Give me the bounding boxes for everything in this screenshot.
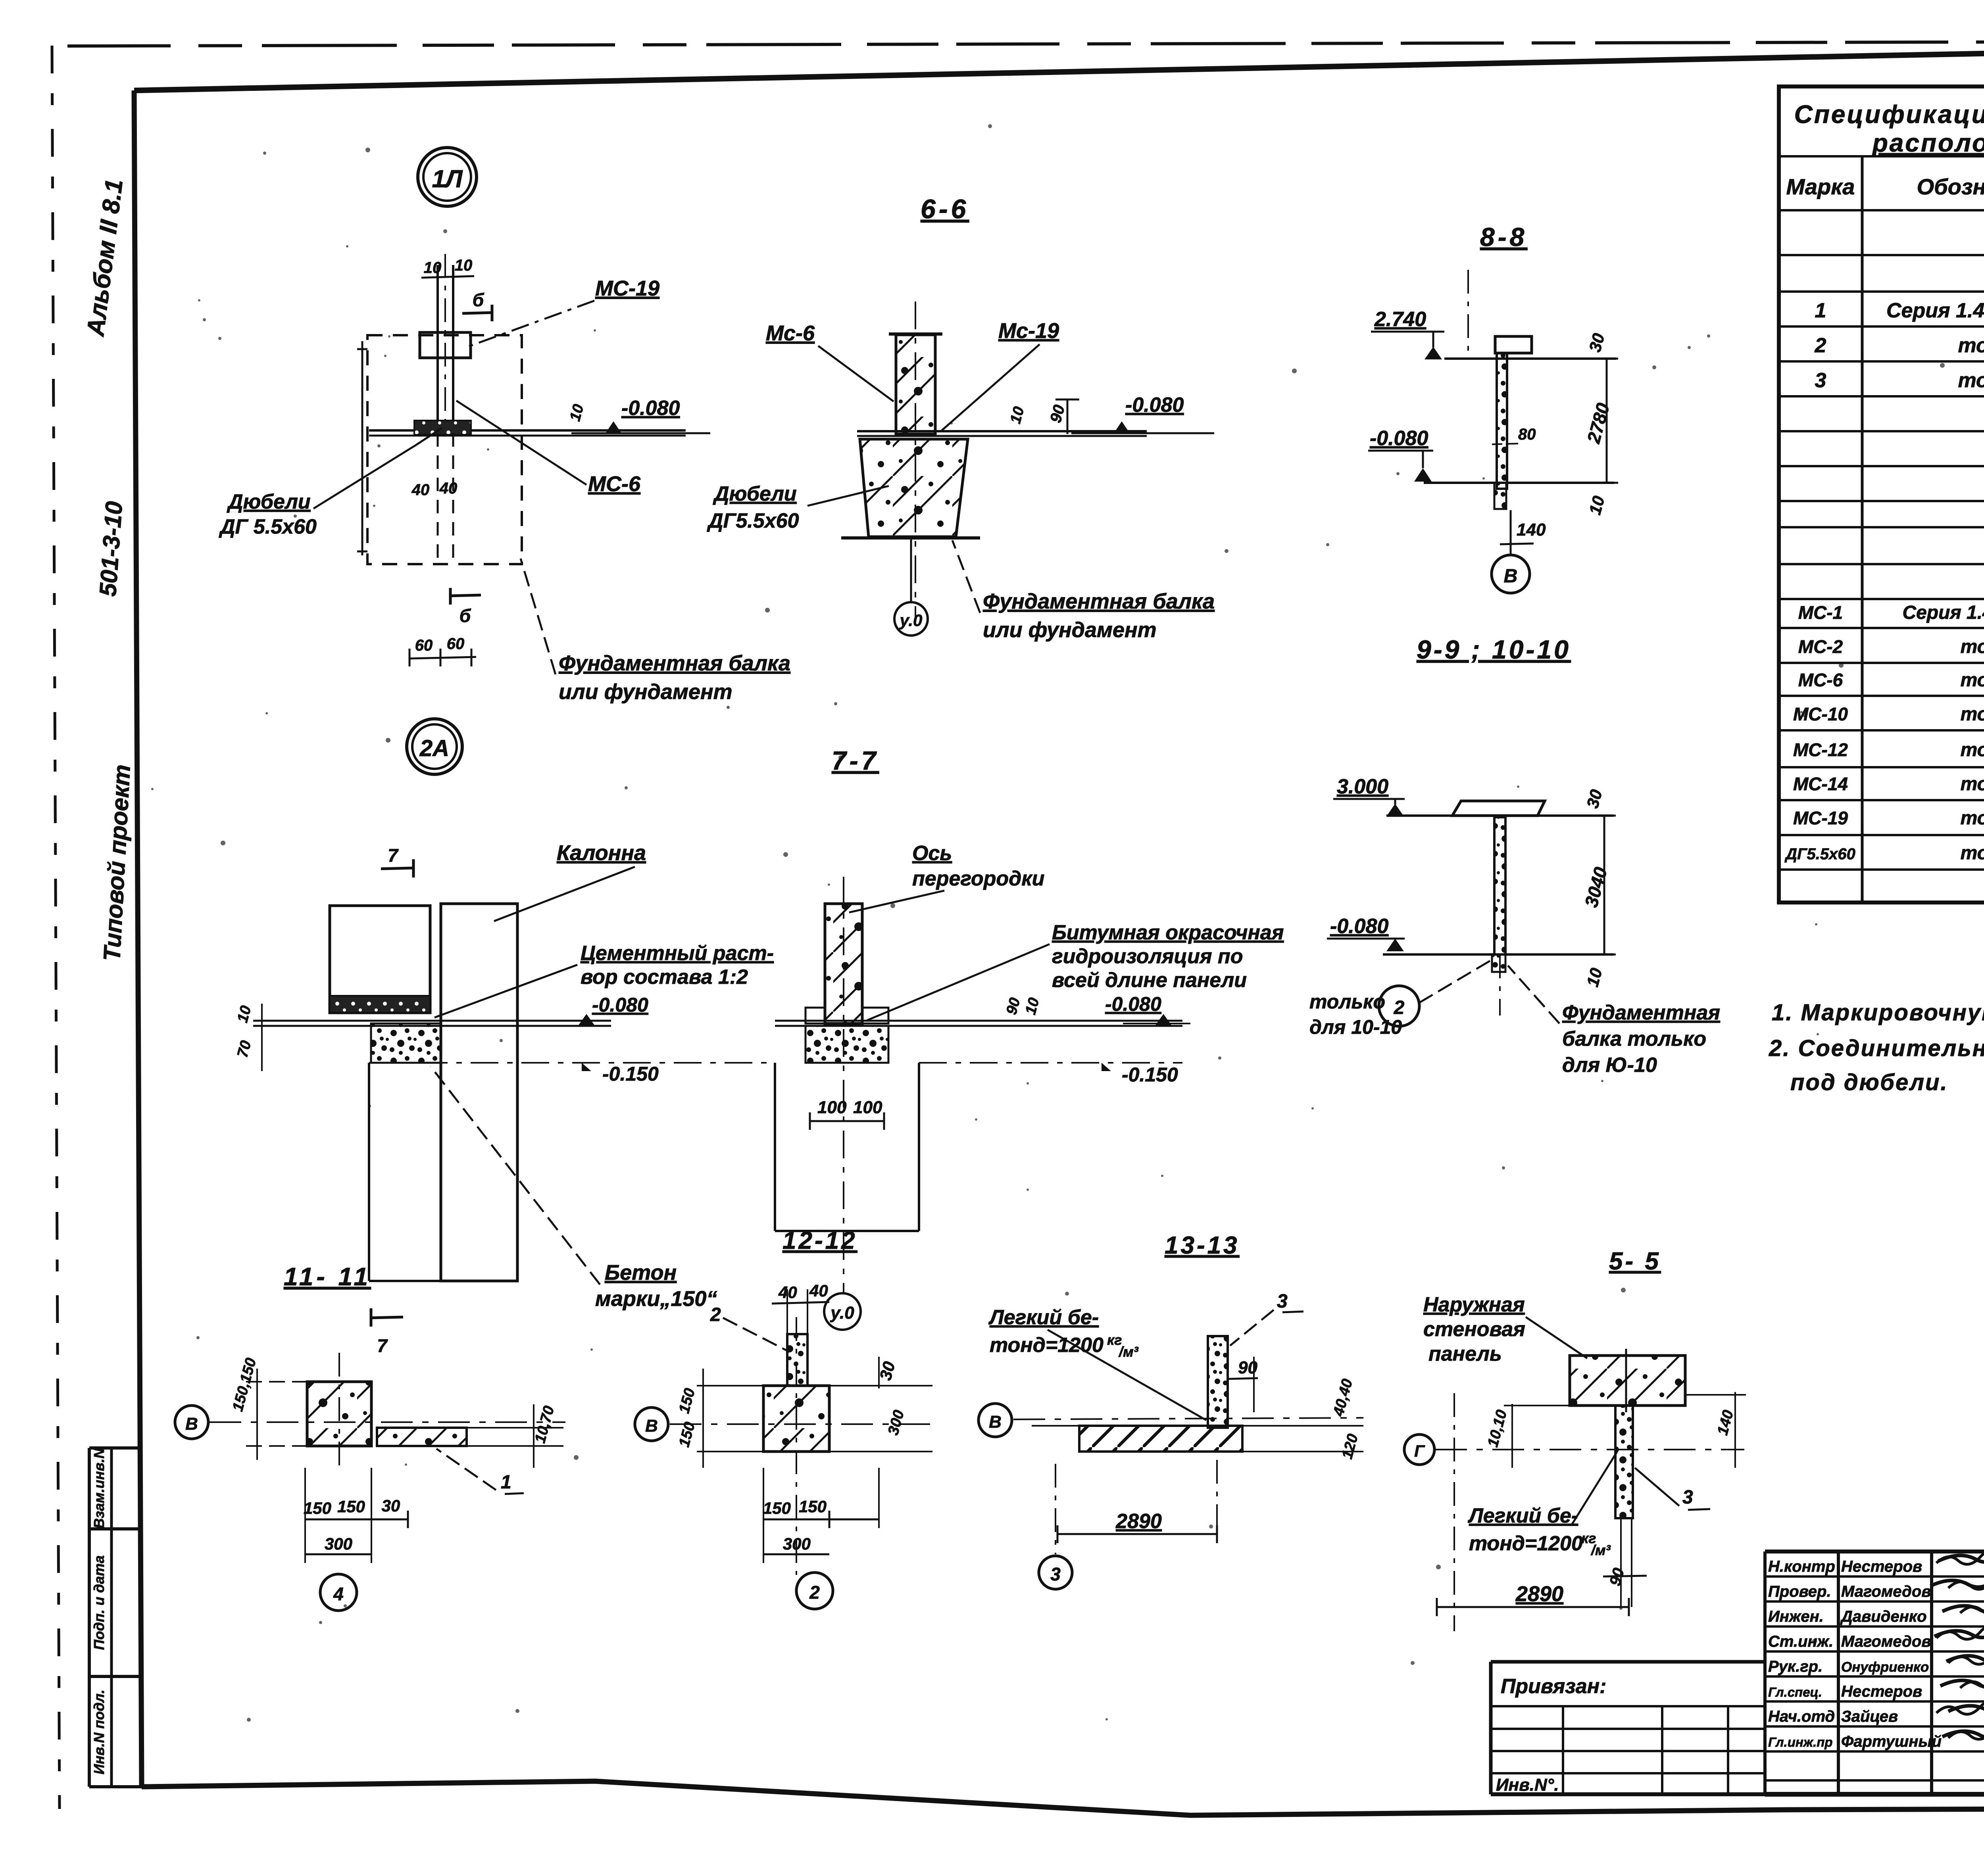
svg-text:Обозначение: Обозначение: [1917, 174, 1984, 199]
svg-text:4: 4: [333, 1584, 344, 1604]
svg-text:у.0: у.0: [899, 611, 923, 630]
svg-text:то же: то же: [1961, 808, 1984, 829]
svg-text:Привязан:: Привязан:: [1501, 1675, 1606, 1698]
svg-text:В: В: [645, 1416, 658, 1436]
svg-text:3.000: 3.000: [1337, 775, 1388, 798]
svg-text:2А: 2А: [419, 735, 449, 761]
svg-text:3: 3: [1682, 1487, 1693, 1508]
svg-text:Дюбели: Дюбели: [713, 482, 797, 505]
svg-text:Г: Г: [1414, 1442, 1425, 1460]
svg-text:3: 3: [1277, 1291, 1288, 1312]
svg-text:Нестеров: Нестеров: [1841, 1558, 1922, 1575]
svg-text:или фундамент: или фундамент: [559, 680, 732, 704]
svg-text:В: В: [185, 1414, 198, 1434]
svg-text:2: 2: [1815, 334, 1826, 357]
svg-text:40: 40: [439, 480, 458, 497]
svg-text:Взам.инв.N: Взам.инв.N: [91, 1448, 107, 1529]
svg-text:В: В: [1504, 566, 1518, 587]
svg-text:Наружная: Наружная: [1423, 1293, 1525, 1316]
svg-text:-0.150: -0.150: [1122, 1064, 1178, 1086]
svg-text:40: 40: [809, 1281, 828, 1300]
svg-text:1: 1: [1815, 299, 1826, 322]
svg-text:Легкий бе-: Легкий бе-: [1467, 1504, 1578, 1527]
svg-text:Н.контр: Н.контр: [1768, 1558, 1835, 1575]
svg-text:гидроизоляция по: гидроизоляция по: [1052, 945, 1243, 968]
svg-text:Фартушный: Фартушный: [1841, 1733, 1942, 1750]
svg-text:только: только: [1309, 991, 1385, 1013]
svg-text:150: 150: [337, 1497, 365, 1516]
svg-text:3: 3: [1050, 1564, 1061, 1584]
svg-text:Магомедов: Магомедов: [1841, 1633, 1931, 1650]
svg-text:панель: панель: [1428, 1342, 1502, 1365]
svg-text:Бетон: Бетон: [605, 1261, 677, 1285]
svg-text:то же: то же: [1961, 636, 1984, 657]
svg-text:МС-19: МС-19: [595, 277, 659, 300]
svg-text:Серия 1.43. ’5 Вып.2: Серия 1.43. ’5 Вып.2: [1886, 299, 1984, 322]
svg-text:1: 1: [501, 1472, 511, 1493]
svg-text:-0.080: -0.080: [592, 994, 648, 1016]
svg-text:7: 7: [377, 1335, 388, 1356]
svg-text:под дюбели.: под дюбели.: [1790, 1070, 1948, 1095]
svg-text:Магомедов: Магомедов: [1841, 1583, 1931, 1600]
svg-text:или фундамент: или фундамент: [983, 618, 1157, 642]
svg-text:/м³: /м³: [1590, 1542, 1611, 1558]
svg-text:140: 140: [1517, 520, 1546, 540]
svg-text:3: 3: [1815, 369, 1826, 392]
svg-text:вор состава 1:2: вор состава 1:2: [581, 966, 748, 989]
svg-text:МС-2: МС-2: [1798, 636, 1843, 657]
svg-text:то же: то же: [1958, 334, 1984, 357]
svg-text:Нестеров: Нестеров: [1841, 1683, 1922, 1700]
svg-text:перегородки: перегородки: [912, 867, 1044, 890]
svg-text:тонд=1200: тонд=1200: [1469, 1532, 1583, 1555]
svg-text:Гл.спец.: Гл.спец.: [1768, 1685, 1822, 1699]
svg-text:12-12: 12-12: [782, 1227, 857, 1254]
svg-text:Серия 1.431-15 В.4: Серия 1.431-15 В.4: [1902, 602, 1984, 623]
svg-text:Давиденко: Давиденко: [1840, 1608, 1927, 1625]
svg-text:Зайцев: Зайцев: [1841, 1708, 1898, 1725]
svg-text:Марка: Марка: [1786, 174, 1855, 199]
svg-text:Рук.гр.: Рук.гр.: [1768, 1658, 1823, 1675]
svg-text:Легкий бе-: Легкий бе-: [988, 1306, 1099, 1329]
svg-text:7: 7: [388, 845, 399, 866]
svg-text:-0.080: -0.080: [621, 397, 680, 420]
svg-text:100: 100: [817, 1098, 847, 1117]
svg-text:1. Маркировочную схему перего: 1. Маркировочную схему перегородок см. н…: [1772, 1000, 1984, 1025]
svg-text:80: 80: [1518, 426, 1536, 443]
svg-text:у.0: у.0: [830, 1303, 854, 1323]
svg-text:60: 60: [415, 637, 433, 654]
svg-text:Провер.: Провер.: [1768, 1583, 1831, 1600]
svg-text:Спецификация элементов к ма: Спецификация элементов к маркировочной с…: [1794, 100, 1984, 129]
svg-text:60: 60: [447, 635, 465, 653]
svg-text:-0.080: -0.080: [1370, 427, 1428, 450]
svg-text:МС-10: МС-10: [1793, 704, 1848, 724]
svg-text:300: 300: [783, 1534, 811, 1553]
svg-text:расположенной на листе КЖ-2: расположенной на листе КЖ-22.: [1872, 129, 1984, 157]
svg-text:150: 150: [304, 1499, 331, 1517]
svg-text:/м³: /м³: [1118, 1344, 1139, 1360]
svg-text:8-8: 8-8: [1480, 222, 1527, 252]
svg-text:ДГ5.5х60: ДГ5.5х60: [707, 509, 799, 532]
svg-text:всей длине панели: всей длине панели: [1052, 969, 1247, 992]
svg-text:б: б: [459, 605, 471, 626]
svg-text:40: 40: [411, 481, 430, 499]
svg-text:В: В: [989, 1412, 1002, 1432]
svg-text:-0.080: -0.080: [1125, 394, 1184, 417]
svg-text:Онуфриенко: Онуфриенко: [1841, 1659, 1929, 1675]
svg-text:6-6: 6-6: [921, 194, 969, 224]
svg-text:Фундаментная: Фундаментная: [1562, 1001, 1720, 1024]
svg-text:МС-12: МС-12: [1793, 739, 1848, 760]
svg-text:Дюбели: Дюбели: [227, 490, 311, 513]
svg-text:марки„150“: марки„150“: [595, 1287, 717, 1311]
svg-text:2: 2: [809, 1582, 820, 1603]
svg-text:Подп. и дата: Подп. и дата: [91, 1555, 107, 1650]
svg-text:то же: то же: [1961, 739, 1984, 760]
svg-text:150: 150: [799, 1497, 827, 1516]
svg-text:11- 11: 11- 11: [284, 1262, 371, 1291]
svg-text:9-9 ; 10-10: 9-9 ; 10-10: [1417, 635, 1571, 664]
svg-text:30: 30: [382, 1496, 400, 1515]
svg-text:Фундаментная балка: Фундаментная балка: [559, 651, 790, 675]
svg-text:13-13: 13-13: [1165, 1232, 1240, 1259]
svg-text:то же: то же: [1961, 843, 1984, 864]
svg-text:МС-1: МС-1: [1798, 602, 1843, 623]
svg-text:100: 100: [853, 1098, 882, 1117]
svg-text:2: 2: [1394, 997, 1405, 1018]
svg-text:90: 90: [1238, 1358, 1257, 1377]
svg-text:б: б: [473, 290, 484, 310]
svg-text:5- 5: 5- 5: [1609, 1248, 1661, 1275]
svg-text:Битумная окрасочная: Битумная окрасочная: [1052, 921, 1284, 944]
svg-text:МС-6: МС-6: [1798, 670, 1843, 690]
svg-text:Нач.отд: Нач.отд: [1768, 1708, 1835, 1725]
svg-text:Мс-6: Мс-6: [766, 321, 815, 345]
svg-text:стеновая: стеновая: [1423, 1318, 1525, 1341]
svg-text:МС-19: МС-19: [1793, 808, 1848, 828]
svg-text:2890: 2890: [1115, 1510, 1162, 1533]
svg-text:Инв.N°.: Инв.N°.: [1496, 1775, 1559, 1795]
svg-text:7-7: 7-7: [832, 746, 879, 775]
svg-text:2: 2: [710, 1304, 721, 1325]
svg-text:Ось: Ось: [912, 842, 952, 865]
svg-text:Фундаментная балка: Фундаментная балка: [983, 589, 1215, 613]
svg-text:Ст.инж.: Ст.инж.: [1768, 1633, 1833, 1650]
svg-text:2. Соединительное изделие Мс-: 2. Соединительное изделие Мс-19 изготови…: [1769, 1035, 1984, 1061]
svg-text:для Ю-10: для Ю-10: [1562, 1054, 1657, 1077]
svg-text:-0.150: -0.150: [602, 1063, 659, 1085]
svg-text:Цементный раст-: Цементный раст-: [581, 942, 774, 965]
svg-text:10: 10: [455, 257, 473, 274]
svg-text:-0.080: -0.080: [1105, 993, 1161, 1015]
svg-text:Мс-19: Мс-19: [998, 319, 1059, 343]
svg-text:Инжен.: Инжен.: [1768, 1608, 1824, 1625]
svg-text:ДГ 5.5х60: ДГ 5.5х60: [219, 515, 317, 538]
svg-text:Гл.инж.пр: Гл.инж.пр: [1768, 1735, 1833, 1749]
svg-text:ДГ5.5х60: ДГ5.5х60: [1784, 845, 1855, 863]
svg-text:МС-14: МС-14: [1793, 774, 1848, 794]
svg-text:то же: то же: [1961, 670, 1984, 691]
svg-text:1Л: 1Л: [432, 165, 463, 193]
svg-text:2.740: 2.740: [1374, 308, 1426, 331]
svg-text:то же: то же: [1958, 369, 1984, 392]
svg-text:150: 150: [763, 1499, 791, 1517]
svg-text:то же: то же: [1961, 774, 1984, 795]
svg-text:то же: то же: [1961, 704, 1984, 725]
svg-text:Калонна: Калонна: [557, 841, 646, 865]
svg-text:Инв.N подл.: Инв.N подл.: [91, 1690, 107, 1774]
svg-text:тонд=1200: тонд=1200: [990, 1334, 1104, 1357]
svg-text:для 10-10: для 10-10: [1309, 1016, 1402, 1038]
svg-text:2890: 2890: [1515, 1582, 1563, 1606]
svg-text:МС-6: МС-6: [588, 472, 641, 496]
svg-text:-0.080: -0.080: [1330, 915, 1389, 938]
svg-text:балка только: балка только: [1562, 1027, 1706, 1050]
svg-text:300: 300: [325, 1534, 352, 1553]
